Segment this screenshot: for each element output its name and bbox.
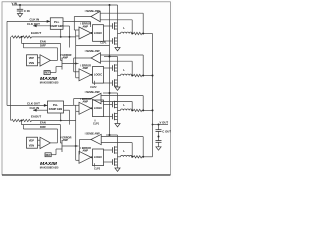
wire sense input lower phase 1 xyxy=(100,19,132,21)
wire REF output U1 xyxy=(50,72,56,74)
svg-text:C OUT: C OUT xyxy=(162,130,171,134)
svg-text:EAOUT: EAOUT xyxy=(31,31,41,35)
wire R1-R2 link U1 xyxy=(21,36,23,38)
IC U1 top controller xyxy=(7,17,110,84)
svg-text:CLK OUT: CLK OUT xyxy=(27,22,40,26)
node error amp output phase 2 xyxy=(91,74,93,76)
wire CLP stub phase 4 xyxy=(94,163,96,166)
wire EAOUT bus vertical U1 xyxy=(75,30,77,78)
svg-text:I SENSE AMP: I SENSE AMP xyxy=(85,132,100,135)
wire PLL2 aux vertical xyxy=(69,110,71,124)
wire sense tap left vertical phase 4 xyxy=(131,143,133,157)
diff amp buffer U2 xyxy=(40,137,50,148)
node sense resistor left phase 2 xyxy=(131,75,133,77)
resistor R2 U2 xyxy=(23,119,32,121)
wire EAN junction stub U2 xyxy=(21,121,23,125)
svg-text:LOGIC: LOGIC xyxy=(94,73,102,77)
wire sense route into error amp phase 2 xyxy=(74,71,79,73)
PLL block U1 xyxy=(50,18,63,30)
svg-text:VSN: VSN xyxy=(29,143,34,147)
wire sense input upper phase 2 xyxy=(101,54,144,56)
svg-text:REF: REF xyxy=(46,154,51,157)
wire sense amp output phase 1 xyxy=(74,16,91,18)
node VIN / C IN junction xyxy=(19,4,21,6)
wire REF into V error amp U2 xyxy=(56,148,62,150)
resistor current sense phase 4 xyxy=(134,156,142,158)
wire VIN sub-rail phase 2 xyxy=(104,56,118,58)
ground C IN xyxy=(17,14,22,17)
PLL block U2 xyxy=(48,101,64,113)
REF block U1 xyxy=(44,71,50,75)
ground low-side phase 2 xyxy=(115,87,120,90)
wire DIFF corner down U1 xyxy=(57,48,59,61)
transistor low-side MOSFET phase 2 xyxy=(112,79,117,87)
node VIN sub-rail junction phase 4 xyxy=(109,134,111,136)
wire VIN to high-side drain phase 1 xyxy=(117,5,119,23)
wire CLK daisy vertical xyxy=(6,21,8,105)
wire low-side source phase 2 xyxy=(117,86,119,87)
svg-text:V OUT: V OUT xyxy=(160,120,169,124)
node VIN sub-rail junction phase 2 xyxy=(109,56,111,58)
wire sense route vertical phase 1 xyxy=(73,17,75,31)
svg-text:MAXIM: MAXIM xyxy=(40,161,57,166)
wire sense tap right vertical phase 4 xyxy=(142,137,144,157)
op-amp V error amp U2 xyxy=(61,140,63,152)
node C OUT mid junction xyxy=(158,136,160,138)
wire error amp to logic phase 1 xyxy=(91,32,93,34)
wire sense resistor to output phase 1 xyxy=(142,33,153,35)
wire PLL bottom tap U2 xyxy=(60,113,62,121)
arrow CLK OUT left end U1 xyxy=(33,24,37,27)
wire sense resistor to output phase 3 xyxy=(142,109,153,111)
wire sense route into error amp phase 4 xyxy=(78,153,81,155)
svg-text:LOGIC: LOGIC xyxy=(94,155,102,159)
wire switch node vertical phase 3 xyxy=(117,108,119,114)
wire CLP stub phase 2 xyxy=(94,81,96,85)
wire EAN into V error amp U2 xyxy=(61,142,63,144)
wire PLL1 stub lower xyxy=(63,25,70,27)
node VOUT tap xyxy=(152,124,154,126)
wire buffer output U2 xyxy=(50,142,57,144)
wire high-side gate phase 3 xyxy=(104,104,113,106)
wire low-side gate phase 3 xyxy=(104,116,113,118)
svg-text:RAMP GEN: RAMP GEN xyxy=(49,108,63,111)
svg-text:L: L xyxy=(123,68,125,72)
wire sense tap left vertical phase 1 xyxy=(131,20,133,34)
resistor R1 U2 xyxy=(12,119,21,121)
svg-text:L: L xyxy=(123,149,125,153)
svg-text:CLK IN: CLK IN xyxy=(30,17,40,21)
wire DIFF left stub U1 xyxy=(22,43,24,47)
wire VIN to high-side drain phase 3 xyxy=(117,93,119,102)
wire DIFF U2 xyxy=(23,128,57,130)
wire CLP stub phase 3 xyxy=(94,120,96,122)
node sense resistor right phase 3 xyxy=(142,109,144,111)
wire V error amp output U2 xyxy=(62,145,79,147)
wire DIFF corner down U2 xyxy=(57,129,59,143)
wire PLL1 ramp stub upper xyxy=(63,21,91,23)
wire VIN rail xyxy=(12,4,118,6)
svg-text:CLK OUT: CLK OUT xyxy=(27,101,40,105)
wire EAN U2 xyxy=(22,124,61,126)
wire PLL1 ramp corner down xyxy=(90,22,92,27)
arrow CLK IN left end U2 xyxy=(33,109,37,112)
wire VSN stub U2 xyxy=(38,144,41,146)
node sense resistor right phase 2 xyxy=(142,75,144,77)
phase 1 group xyxy=(74,5,152,51)
node PLL1 aux junction xyxy=(69,36,71,38)
wire sense amp output phase 4 xyxy=(80,139,92,141)
wire sense resistor to output phase 4 xyxy=(142,156,153,158)
node sense resistor right phase 1 xyxy=(142,33,144,35)
transistor low-side MOSFET phase 1 xyxy=(112,37,117,45)
wire sense tap left vertical phase 2 xyxy=(131,61,133,75)
svg-text:L: L xyxy=(123,26,125,30)
wire C OUT bottom stem xyxy=(158,142,160,147)
wire C IN stem top xyxy=(19,5,21,9)
wire EAOUT bus vertical U2 xyxy=(75,105,77,160)
node error amp output phase 4 xyxy=(91,156,93,158)
wire REF corner up U1 xyxy=(55,67,57,73)
node V error amp output U2 xyxy=(75,145,77,147)
wire inductor to sense resistor phase 3 xyxy=(132,109,133,111)
wire inductor to sense resistor phase 4 xyxy=(132,156,133,158)
ground low-side phase 3 xyxy=(115,124,120,127)
wire V error amp output U1 xyxy=(62,63,79,65)
transistor low-side MOSFET phase 3 xyxy=(112,113,117,121)
resistor current sense phase 3 xyxy=(134,109,142,111)
wire bus to error amp input U1 xyxy=(76,35,79,37)
wire switch node vertical phase 2 xyxy=(117,71,119,80)
wire high-side gate phase 4 xyxy=(104,149,113,151)
capacitor C OUT upper xyxy=(156,129,162,131)
svg-text:AMP: AMP xyxy=(83,67,89,70)
wire sense input lower phase 3 xyxy=(101,101,132,103)
svg-text:C IN: C IN xyxy=(24,9,30,13)
LOGIC block phase 2 xyxy=(93,67,104,84)
wire inductor to sense resistor phase 1 xyxy=(132,33,133,35)
border frame xyxy=(2,2,170,175)
wire sense input lower phase 2 xyxy=(101,60,133,62)
wire sense input upper phase 1 xyxy=(100,12,143,14)
VDP VSN block U2 xyxy=(27,137,38,148)
svg-text:AMP: AMP xyxy=(83,101,89,104)
svg-text:RAMP GEN: RAMP GEN xyxy=(50,25,64,28)
wire error amp to logic phase 4 xyxy=(91,156,93,158)
wire sense route vertical phase 2 xyxy=(73,58,75,72)
wire inductor to sense resistor phase 2 xyxy=(132,75,133,77)
wire REF output U2 xyxy=(51,154,56,156)
wire EAN U1 xyxy=(22,42,61,44)
node EAOUT under PLL U1 xyxy=(60,36,62,38)
LOGIC block phase 4 xyxy=(93,149,104,166)
wire VDP stub U1 xyxy=(38,57,41,59)
wire CLK IN U1 xyxy=(7,20,50,22)
wire low-side gate phase 2 xyxy=(104,82,113,84)
wire sense amp output phase 2 xyxy=(74,57,91,59)
node sense resistor left phase 4 xyxy=(131,156,133,158)
wire bus to error amp input U1 xyxy=(76,77,79,79)
resistor current sense phase 2 xyxy=(134,74,142,76)
svg-text:LOGIC: LOGIC xyxy=(94,106,102,110)
wire error amp to logic phase 2 xyxy=(91,74,93,76)
wire sense tap right vertical phase 2 xyxy=(142,55,144,76)
svg-text:L: L xyxy=(123,103,125,107)
transistor high-side MOSFET phase 4 xyxy=(112,146,117,154)
wire buffer output U1 xyxy=(50,59,57,61)
svg-text:AMP: AMP xyxy=(83,150,89,153)
wire sense input upper phase 3 xyxy=(101,95,143,97)
resistor current sense phase 1 xyxy=(134,32,142,34)
wire CLK OUT U1 xyxy=(33,25,50,27)
wire bus to error amp input U2 xyxy=(76,110,79,112)
wire VIN sub-rail phase 3 xyxy=(103,92,118,94)
wire PLL2 ramp stub upper xyxy=(64,104,74,106)
svg-text:MAX5038EAI25: MAX5038EAI25 xyxy=(40,166,59,170)
wire EAN corner down U2 xyxy=(60,125,62,143)
inductor L phase 2 xyxy=(121,74,133,75)
wire sense route into error amp phase 1 xyxy=(74,29,79,31)
ground C OUT xyxy=(156,147,161,150)
wire EAN junction stub U1 xyxy=(21,37,23,44)
wire sense input lower phase 4 xyxy=(101,142,132,144)
svg-text:PLL: PLL xyxy=(54,20,60,24)
ground low-side phase 4 xyxy=(115,168,120,171)
wire high-side gate phase 1 xyxy=(104,25,113,27)
op-amp current sense amp phase 3 xyxy=(91,93,101,103)
node C OUT tap xyxy=(158,124,160,126)
phase 3 group xyxy=(74,91,153,127)
node phase3 join xyxy=(152,109,154,111)
wire VDP stub U2 xyxy=(38,139,41,141)
wire VIN to high-side drain phase 4 xyxy=(117,135,119,147)
wire switch node vertical phase 1 xyxy=(117,29,119,38)
wire low-side source phase 3 xyxy=(117,120,119,124)
wire R1-R2 link U2 xyxy=(21,120,23,122)
wire EAOUT to bus U2 xyxy=(32,120,76,122)
wire low-side source phase 1 xyxy=(117,44,119,48)
node sense resistor left phase 1 xyxy=(131,33,133,35)
svg-text:CLP1: CLP1 xyxy=(100,41,107,44)
svg-text:DIFF: DIFF xyxy=(40,125,46,129)
REF block U2 xyxy=(45,153,51,157)
node R1-R2 junction U1 xyxy=(21,36,23,38)
wire switch node to inductor phase 2 xyxy=(118,75,121,77)
wire low-side source phase 4 xyxy=(117,165,119,168)
svg-text:CLP2: CLP2 xyxy=(90,86,97,89)
node EAOUT under PLL U2 xyxy=(60,120,62,122)
wire sense resistor to output phase 2 xyxy=(142,75,153,77)
op-amp current sense amp phase 4 xyxy=(91,134,101,144)
wire low-side gate phase 1 xyxy=(104,40,113,42)
wire C OUT stem xyxy=(158,125,160,130)
wire EAOUT daisy vertical xyxy=(10,37,12,121)
transistor high-side MOSFET phase 1 xyxy=(112,22,117,30)
node R1-R2 junction U2 xyxy=(21,120,23,122)
wire switch node to inductor phase 4 xyxy=(118,156,121,158)
wire PLL2 stub lower xyxy=(64,109,70,111)
wire REF into V error amp U1 xyxy=(56,66,62,68)
node sense resistor right phase 4 xyxy=(142,156,144,158)
VDP VSN block U1 xyxy=(27,55,38,66)
wire VSN stub U1 xyxy=(38,62,41,64)
svg-text:PLL: PLL xyxy=(53,103,59,107)
wire EAN corner down U1 xyxy=(60,43,62,60)
wire switch node vertical phase 4 xyxy=(117,153,119,159)
wire switch node to inductor phase 3 xyxy=(118,109,121,111)
op-amp current error amp phase 2 xyxy=(79,69,91,81)
svg-text:EAN: EAN xyxy=(40,121,46,125)
IC U2 bottom controller xyxy=(7,101,79,170)
op-amp current error amp phase 1 xyxy=(79,27,91,39)
wire C IN stem bottom xyxy=(19,11,21,14)
phase 2 group xyxy=(74,50,153,90)
inductor L phase 3 xyxy=(121,109,133,110)
wire error amp to logic phase 3 xyxy=(91,107,93,109)
svg-text:CLK IN: CLK IN xyxy=(30,106,40,110)
wire sense tap left vertical phase 3 xyxy=(131,102,133,111)
svg-text:VDP: VDP xyxy=(29,138,35,142)
op-amp V error amp U1 xyxy=(61,58,63,70)
svg-text:REF: REF xyxy=(45,72,50,75)
wire C OUT mid stem xyxy=(158,131,160,140)
svg-text:AMP: AMP xyxy=(63,139,69,142)
transistor low-side MOSFET phase 4 xyxy=(112,158,117,166)
svg-text:I SENSE AMP: I SENSE AMP xyxy=(85,50,100,53)
wire bus T-branch U1 xyxy=(76,44,110,46)
op-amp current sense amp phase 1 xyxy=(91,11,100,21)
wire DIFF left stub U2 xyxy=(22,125,24,129)
wire VIN to high-side drain phase 2 xyxy=(117,57,119,66)
wire sense amp output phase 3 xyxy=(74,98,91,100)
wire switch node to inductor phase 1 xyxy=(118,33,121,35)
wire PLL bottom tap U1 xyxy=(60,29,62,37)
border bottom heavy line xyxy=(2,174,170,176)
wire DIFF U1 xyxy=(23,47,57,49)
LOGIC block phase 3 xyxy=(93,100,104,117)
wire VOUT xyxy=(153,124,169,126)
wire sense route into error amp phase 3 xyxy=(74,104,79,106)
ground low-side phase 1 xyxy=(115,48,120,51)
phase 4 group xyxy=(79,132,153,171)
op-amp current error amp phase 4 xyxy=(79,151,91,163)
inductor L phase 4 xyxy=(121,155,133,156)
arrow CLK OUT into PLL U2 xyxy=(44,104,48,107)
svg-text:MAX5038EAI25: MAX5038EAI25 xyxy=(40,80,59,84)
svg-text:AMP: AMP xyxy=(83,25,89,28)
svg-text:AMP: AMP xyxy=(63,57,69,60)
wire PLL1 aux vertical xyxy=(69,26,71,48)
wire VIN vertical drop xyxy=(109,5,111,135)
node sense resistor left phase 3 xyxy=(131,109,133,111)
op-amp current error amp phase 3 xyxy=(79,102,91,114)
wire high-side gate phase 2 xyxy=(104,67,113,69)
node VIN drop junction xyxy=(109,4,111,6)
wire REF corner up U2 xyxy=(55,149,57,155)
wire CLK IN U2 xyxy=(33,109,48,111)
wire sense tap right vertical phase 3 xyxy=(142,96,144,111)
arrow CLK IN into PLL U1 xyxy=(47,20,51,23)
op-amp current sense amp phase 2 xyxy=(91,53,101,63)
node V error amp output U1 xyxy=(75,63,77,65)
LOGIC block phase 1 xyxy=(93,25,104,42)
svg-text:DIFF: DIFF xyxy=(40,44,46,48)
svg-text:MAXIM: MAXIM xyxy=(40,76,57,81)
wire sense input upper phase 4 xyxy=(101,136,143,138)
wire sense route vertical phase 4 xyxy=(79,140,81,155)
node VIN sub-rail junction phase 3 xyxy=(109,92,111,94)
wire VOUT rail vertical xyxy=(152,34,154,157)
svg-text:EAN: EAN xyxy=(40,39,46,43)
resistor R2 U1 xyxy=(23,36,32,38)
wire VIN sub-rail phase 4 xyxy=(106,134,118,136)
wire EAN into V error amp U1 xyxy=(61,60,63,62)
svg-text:EAOUT: EAOUT xyxy=(31,115,41,119)
transistor high-side MOSFET phase 2 xyxy=(112,64,117,72)
wire sense route vertical phase 3 xyxy=(73,99,75,106)
node phase2 join xyxy=(152,75,154,77)
capacitor C IN xyxy=(17,8,23,10)
svg-text:CLP2: CLP2 xyxy=(94,167,101,170)
diff amp buffer U1 xyxy=(40,55,50,66)
wire low-side gate phase 4 xyxy=(104,161,113,163)
svg-text:VSN: VSN xyxy=(29,61,34,65)
wire bus to error amp input U2 xyxy=(76,159,79,161)
wire sense tap right vertical phase 1 xyxy=(142,13,144,33)
node error amp output phase 1 xyxy=(91,32,93,34)
svg-text:CLP1: CLP1 xyxy=(93,122,100,125)
node error amp output phase 3 xyxy=(91,107,93,109)
capacitor C OUT lower xyxy=(156,140,162,142)
resistor R1 U1 xyxy=(12,36,21,38)
svg-text:I SENSE AMP: I SENSE AMP xyxy=(85,91,100,94)
svg-text:LOGIC: LOGIC xyxy=(94,31,102,35)
inductor L phase 1 xyxy=(121,32,133,33)
transistor high-side MOSFET phase 3 xyxy=(112,101,117,109)
wire CLK OUT U2 xyxy=(7,104,48,106)
svg-text:VDP: VDP xyxy=(29,56,35,60)
wire EAOUT to bus U1 xyxy=(32,36,76,38)
